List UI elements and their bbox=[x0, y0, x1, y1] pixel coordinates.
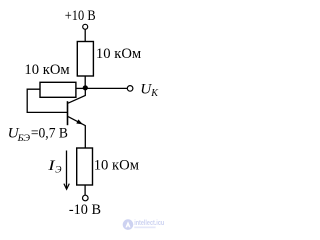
wire terminal to R1 bbox=[84, 30, 86, 42]
svg-text:-10 В: -10 В bbox=[69, 202, 101, 218]
terminal -10V bbox=[83, 195, 89, 201]
watermark logo bbox=[123, 219, 165, 230]
resistor R3 10k emitter bbox=[77, 148, 93, 185]
current arrow Ie bbox=[66, 151, 68, 189]
svg-text:10 кОм: 10 кОм bbox=[96, 46, 142, 62]
terminal Uk output bbox=[127, 86, 133, 92]
resistor R2 10k base bbox=[40, 82, 76, 97]
transistor Q1 base bar bbox=[67, 101, 69, 125]
svg-text:БЭ: БЭ bbox=[17, 134, 31, 144]
junction collector node bbox=[83, 85, 88, 90]
svg-text:intellect.icu: intellect.icu bbox=[134, 220, 164, 227]
wire R3 to -10V terminal bbox=[84, 185, 86, 195]
transistor Q1 emitter lead with arrow bbox=[68, 117, 85, 149]
svg-text:Э: Э bbox=[55, 166, 61, 176]
svg-text:10 кОм: 10 кОм bbox=[24, 62, 70, 78]
wire collector node to output terminal bbox=[85, 87, 127, 89]
transistor Q1 collector lead bbox=[68, 88, 85, 103]
resistor R1 10k collector bbox=[77, 42, 93, 77]
svg-text:10 кОм: 10 кОм bbox=[94, 157, 140, 173]
wire R2 left side down to base bbox=[27, 89, 67, 112]
svg-text:=0,7 В: =0,7 В bbox=[31, 125, 68, 141]
wire R2 right side to collector node bbox=[76, 87, 85, 89]
terminal +10V bbox=[83, 24, 88, 29]
wire R1 to collector node bbox=[84, 76, 86, 88]
svg-text:+10 В: +10 В bbox=[65, 8, 96, 24]
